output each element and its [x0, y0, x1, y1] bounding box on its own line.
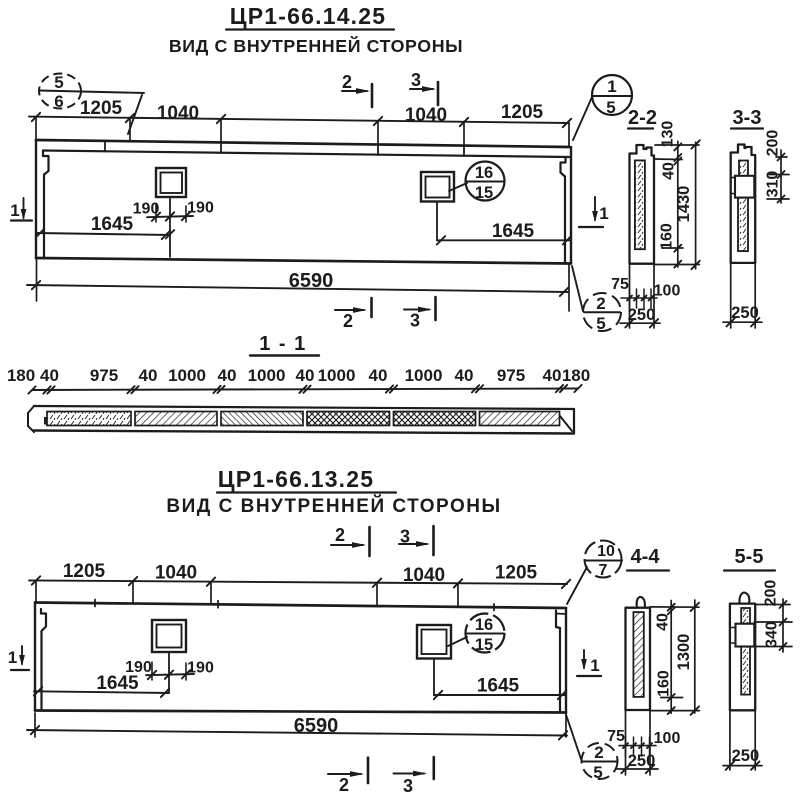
mini dims 75/100 (4-4)	[607, 728, 680, 756]
svg-text:40: 40	[296, 366, 315, 385]
hatched core segment 4 (1-1)	[307, 412, 390, 426]
svg-text:130: 130	[660, 121, 677, 148]
svg-text:40: 40	[661, 162, 678, 180]
hatched core segment 5 (1-1)	[394, 412, 476, 426]
svg-text:1: 1	[8, 648, 17, 667]
top dimension line (panel 14.25)	[29, 113, 571, 127]
svg-text:1040: 1040	[403, 565, 445, 586]
svg-text:1000: 1000	[318, 366, 356, 385]
svg-text:160: 160	[656, 670, 673, 697]
detail mark circle 2/5 (bottom)	[582, 743, 618, 782]
svg-text:7: 7	[599, 562, 608, 579]
dim text 1205 (bottom right)	[495, 563, 538, 584]
svg-text:1205: 1205	[501, 102, 544, 123]
window centre line left (panel 13.25)	[168, 653, 170, 693]
leader window to mark 16/15	[449, 183, 467, 191]
dim text 160 (4-4)	[656, 670, 673, 697]
section 3-3 dim line 200/310	[778, 150, 785, 203]
hatched core segment 2 (1-1)	[135, 412, 217, 426]
dim 1645 left (panel 13.25)	[34, 673, 169, 697]
section 5-5 dim connectors	[754, 605, 792, 647]
section 4-4 dim line 1300	[691, 600, 699, 715]
section 3-3 recess	[731, 176, 755, 198]
svg-text:2: 2	[335, 525, 345, 545]
detail mark circle 10/7	[585, 541, 623, 580]
svg-text:2: 2	[339, 775, 349, 795]
svg-text:16: 16	[475, 164, 493, 182]
dim text 200 (5-5)	[763, 580, 780, 607]
section 3-3 body	[731, 145, 756, 263]
svg-text:3: 3	[410, 311, 420, 331]
svg-text:2: 2	[594, 743, 603, 762]
svg-text:1645: 1645	[477, 676, 520, 697]
plank bottom line (1-1)	[34, 431, 574, 434]
panel 13.25 outline	[35, 603, 566, 713]
detail mark circle 1/5	[592, 75, 632, 117]
section 3-3 lower extensions	[731, 263, 756, 328]
section 2-2 core strip	[635, 160, 645, 249]
svg-text:1040: 1040	[157, 103, 199, 124]
svg-text:3-3: 3-3	[733, 107, 762, 129]
dim 250 (4-4)	[617, 752, 658, 773]
dimension labels section 1-1	[7, 366, 590, 385]
section 4-4 lower extensions	[626, 710, 651, 775]
svg-text:250: 250	[731, 304, 759, 322]
leader panel corner to mark 2/5 (top)	[572, 266, 583, 311]
detail mark circle 16/15 (bottom)	[466, 614, 505, 655]
section marker 3 (below panel 13.25)	[394, 757, 434, 796]
dim text 1040 (top right)	[405, 105, 447, 126]
mini dims 75/100 (2-2)	[611, 276, 680, 308]
svg-text:1000: 1000	[248, 366, 286, 385]
section 3-3 core strip lower	[738, 198, 748, 252]
panel 14.25 flange separators	[105, 141, 464, 156]
svg-text:1205: 1205	[63, 561, 106, 582]
section 2-2 body	[630, 145, 655, 264]
svg-text:1000: 1000	[168, 366, 206, 385]
svg-text:6: 6	[54, 92, 63, 111]
window centre line right (panel 13.25)	[433, 659, 435, 696]
extension lines 6590 (panel 14.25)	[37, 259, 570, 311]
svg-text:ЦР1-66.13.25: ЦР1-66.13.25	[218, 466, 375, 492]
section 5-5 core strip	[741, 608, 750, 695]
plank top line (1-1)	[34, 406, 574, 409]
svg-text:5-5: 5-5	[735, 546, 764, 568]
svg-text:40: 40	[369, 366, 388, 385]
svg-text:15: 15	[475, 184, 493, 202]
svg-text:1205: 1205	[80, 98, 123, 119]
svg-text:100: 100	[654, 730, 681, 747]
dim text 340 (5-5)	[764, 621, 781, 648]
svg-text:100: 100	[654, 283, 681, 300]
svg-text:2: 2	[342, 72, 352, 92]
svg-text:2: 2	[343, 311, 353, 331]
plank right end cap (1-1)	[550, 409, 575, 433]
extension lines 6590 (panel 13.25)	[35, 713, 566, 737]
extension lines top dims (panel 13.25)	[36, 581, 458, 607]
section 3-3 core strip upper	[739, 161, 748, 177]
dim text 160 (2-2)	[659, 223, 676, 250]
svg-text:975: 975	[497, 366, 525, 385]
svg-text:40: 40	[218, 366, 237, 385]
svg-text:5: 5	[596, 314, 605, 333]
dim text 310 (3-3)	[765, 171, 782, 198]
leader panel corner to mark 2/5 (bottom)	[566, 713, 582, 759]
leader window to mark 16/15 (bottom)	[448, 637, 467, 646]
section 2-2 dim connectors	[654, 145, 699, 265]
section 5-5 lifting hook	[739, 593, 749, 603]
section marker 1 (right of panel 13.25)	[577, 650, 601, 676]
svg-text:ВИД С ВНУТРЕННЕЙ СТОРОНЫ: ВИД С ВНУТРЕННЕЙ СТОРОНЫ	[169, 35, 463, 56]
section title 5-5	[724, 546, 775, 571]
dim text 1040 (top left)	[157, 103, 199, 124]
section 5-5 recess	[730, 624, 754, 647]
svg-text:1645: 1645	[492, 221, 535, 242]
window opening left (panel 13.25)	[152, 620, 186, 652]
section marker 2 (above panel 14.25)	[342, 72, 372, 107]
title CR1-66.14.25	[226, 3, 394, 30]
section 5-5 dim line 200/340	[780, 599, 787, 652]
section 4-4 dim line 40/160	[668, 601, 675, 715]
svg-text:5: 5	[54, 73, 63, 92]
dimension line section 1-1	[28, 385, 581, 394]
svg-text:1645: 1645	[91, 214, 134, 235]
svg-text:4-4: 4-4	[631, 546, 661, 568]
dim text 1430 (2-2)	[675, 186, 693, 223]
window opening right (panel 13.25)	[417, 625, 451, 659]
panel 13.25 top edge separators	[95, 600, 494, 611]
section marker 1 (left of panel 14.25)	[10, 198, 32, 221]
title CR1-66.13.25	[217, 466, 396, 493]
svg-text:40: 40	[543, 366, 562, 385]
svg-text:160: 160	[659, 223, 676, 250]
mini dim 190+190 (panel 14.25)	[133, 200, 214, 223]
dim text 1205 (top right)	[501, 102, 544, 123]
section 4-4 lifting hook	[637, 597, 645, 608]
section title 1-1	[250, 333, 319, 356]
svg-text:6590: 6590	[289, 270, 334, 292]
section marker 2 (above panel 13.25)	[331, 525, 370, 556]
svg-text:15: 15	[475, 636, 493, 654]
section title 3-3	[731, 107, 763, 129]
svg-text:180: 180	[562, 366, 590, 385]
svg-text:2: 2	[596, 294, 605, 313]
section 5-5 body	[730, 604, 755, 711]
section 4-4 body	[626, 608, 651, 710]
dim text 1040 (bottom left)	[155, 563, 197, 584]
svg-text:ЦР1-66.14.25: ЦР1-66.14.25	[230, 3, 387, 29]
svg-text:3: 3	[403, 776, 413, 796]
detail mark circle 2/5 (top)	[583, 293, 621, 333]
dim 6590 (panel 14.25)	[27, 270, 568, 296]
svg-text:250: 250	[732, 747, 760, 765]
dim 6590 (panel 13.25)	[27, 715, 567, 740]
svg-text:40: 40	[40, 366, 59, 385]
section 2-2 dim line 130/40/160	[674, 141, 681, 267]
svg-text:190: 190	[187, 200, 214, 217]
svg-text:340: 340	[764, 621, 781, 648]
svg-text:250: 250	[628, 752, 656, 770]
svg-text:310: 310	[765, 171, 782, 198]
section marker 3 (above panel 14.25)	[410, 70, 438, 105]
dim 1645 right (panel 13.25)	[434, 676, 566, 700]
dim text 1205 (bottom left)	[63, 561, 106, 582]
window centre line left (panel 14.25)	[166, 199, 174, 258]
svg-text:180: 180	[7, 366, 35, 385]
plank left end cap (1-1)	[28, 406, 51, 432]
svg-text:2-2: 2-2	[628, 107, 657, 129]
extension lines top dims (panel 14.25)	[36, 117, 569, 147]
leader from mark 1/5 to panel corner	[573, 97, 592, 140]
section marker 1 (right of panel 14.25)	[579, 197, 609, 227]
svg-text:1: 1	[607, 77, 616, 96]
svg-text:1000: 1000	[405, 366, 443, 385]
section 2-2 lower extensions	[630, 264, 655, 328]
section marker 2 (below panel 14.25)	[335, 298, 372, 331]
svg-text:10: 10	[597, 543, 615, 560]
dim 1645 left (panel 14.25)	[36, 214, 170, 239]
svg-text:1205: 1205	[495, 563, 538, 584]
dim 250 (3-3)	[723, 304, 762, 326]
svg-text:190: 190	[187, 660, 214, 677]
svg-text:ВИД С ВНУТРЕННЕЙ СТОРОНЫ: ВИД С ВНУТРЕННЕЙ СТОРОНЫ	[166, 495, 501, 517]
section marker 3 (below panel 14.25)	[404, 297, 436, 331]
dim 250 (2-2)	[620, 306, 660, 327]
hatched core segment 6 (1-1)	[480, 412, 560, 426]
top dimension line (panel 13.25)	[29, 576, 570, 588]
dim 250 (5-5)	[723, 747, 762, 770]
svg-text:250: 250	[628, 306, 656, 324]
svg-text:40: 40	[455, 366, 474, 385]
svg-text:6590: 6590	[294, 715, 339, 737]
svg-text:1 - 1: 1 - 1	[259, 333, 307, 355]
svg-text:3: 3	[411, 70, 421, 90]
svg-text:1645: 1645	[96, 673, 139, 694]
svg-text:1: 1	[599, 204, 608, 223]
mini dim 190+190 (panel 13.25)	[125, 659, 214, 680]
section 5-5 lower extensions	[730, 710, 755, 770]
window opening left (panel 14.25)	[156, 168, 186, 197]
svg-text:1: 1	[590, 656, 599, 675]
dim text 40 (4-4)	[655, 613, 672, 631]
detail mark circle 16/15 (top)	[466, 162, 505, 203]
subtitle VID S VNUTRENNEY STORONY (bottom)	[166, 495, 501, 517]
svg-text:200: 200	[765, 130, 782, 157]
section 2-2 dim line 1430	[691, 140, 699, 269]
leader from mark 5/6 to dim line	[128, 95, 142, 134]
svg-text:1300: 1300	[675, 634, 693, 671]
detail mark circle 5/6	[39, 73, 144, 111]
svg-text:40: 40	[139, 366, 158, 385]
svg-text:40: 40	[655, 613, 672, 631]
svg-text:1040: 1040	[155, 563, 197, 584]
dim text 1040 (bottom right)	[403, 565, 445, 586]
dim text 1300 (4-4)	[675, 634, 693, 671]
svg-text:5: 5	[593, 763, 602, 782]
section marker 1 (left of panel 13.25)	[8, 646, 29, 670]
leader from mark 10/7 to panel corner	[567, 567, 587, 604]
section 4-4 dim connectors	[650, 607, 699, 711]
dim text 1205 (top left)	[80, 98, 123, 119]
svg-text:190: 190	[133, 201, 160, 218]
svg-text:1040: 1040	[405, 105, 447, 126]
svg-text:75: 75	[607, 728, 625, 745]
window centre line right (panel 14.25)	[436, 202, 438, 241]
svg-text:75: 75	[611, 276, 629, 293]
dim 1645 right (panel 14.25)	[437, 221, 571, 245]
svg-text:1: 1	[10, 201, 19, 220]
svg-text:975: 975	[90, 366, 118, 385]
dim text 40 (2-2)	[661, 162, 678, 180]
section marker 3 (above panel 13.25)	[399, 526, 434, 555]
svg-text:200: 200	[763, 580, 780, 607]
section 3-3 dim connectors	[767, 157, 789, 199]
subtitle VID S VNUTRENNEY STORONY (top)	[169, 35, 463, 56]
hatched core segment 3 (1-1)	[221, 412, 303, 426]
dim text 130 (2-2)	[660, 121, 677, 148]
section title 2-2	[628, 107, 657, 129]
svg-text:5: 5	[606, 98, 615, 117]
section marker 2 (below panel 13.25)	[328, 758, 368, 796]
section title 4-4	[627, 546, 669, 571]
panel 14.25 outline	[36, 140, 571, 264]
svg-text:1430: 1430	[675, 186, 693, 223]
svg-text:16: 16	[475, 616, 493, 634]
hatched core segment 1 (1-1)	[47, 412, 131, 426]
dim text 200 (3-3)	[765, 130, 782, 157]
window opening right (panel 14.25)	[421, 172, 454, 202]
section 4-4 core strip	[633, 612, 643, 697]
